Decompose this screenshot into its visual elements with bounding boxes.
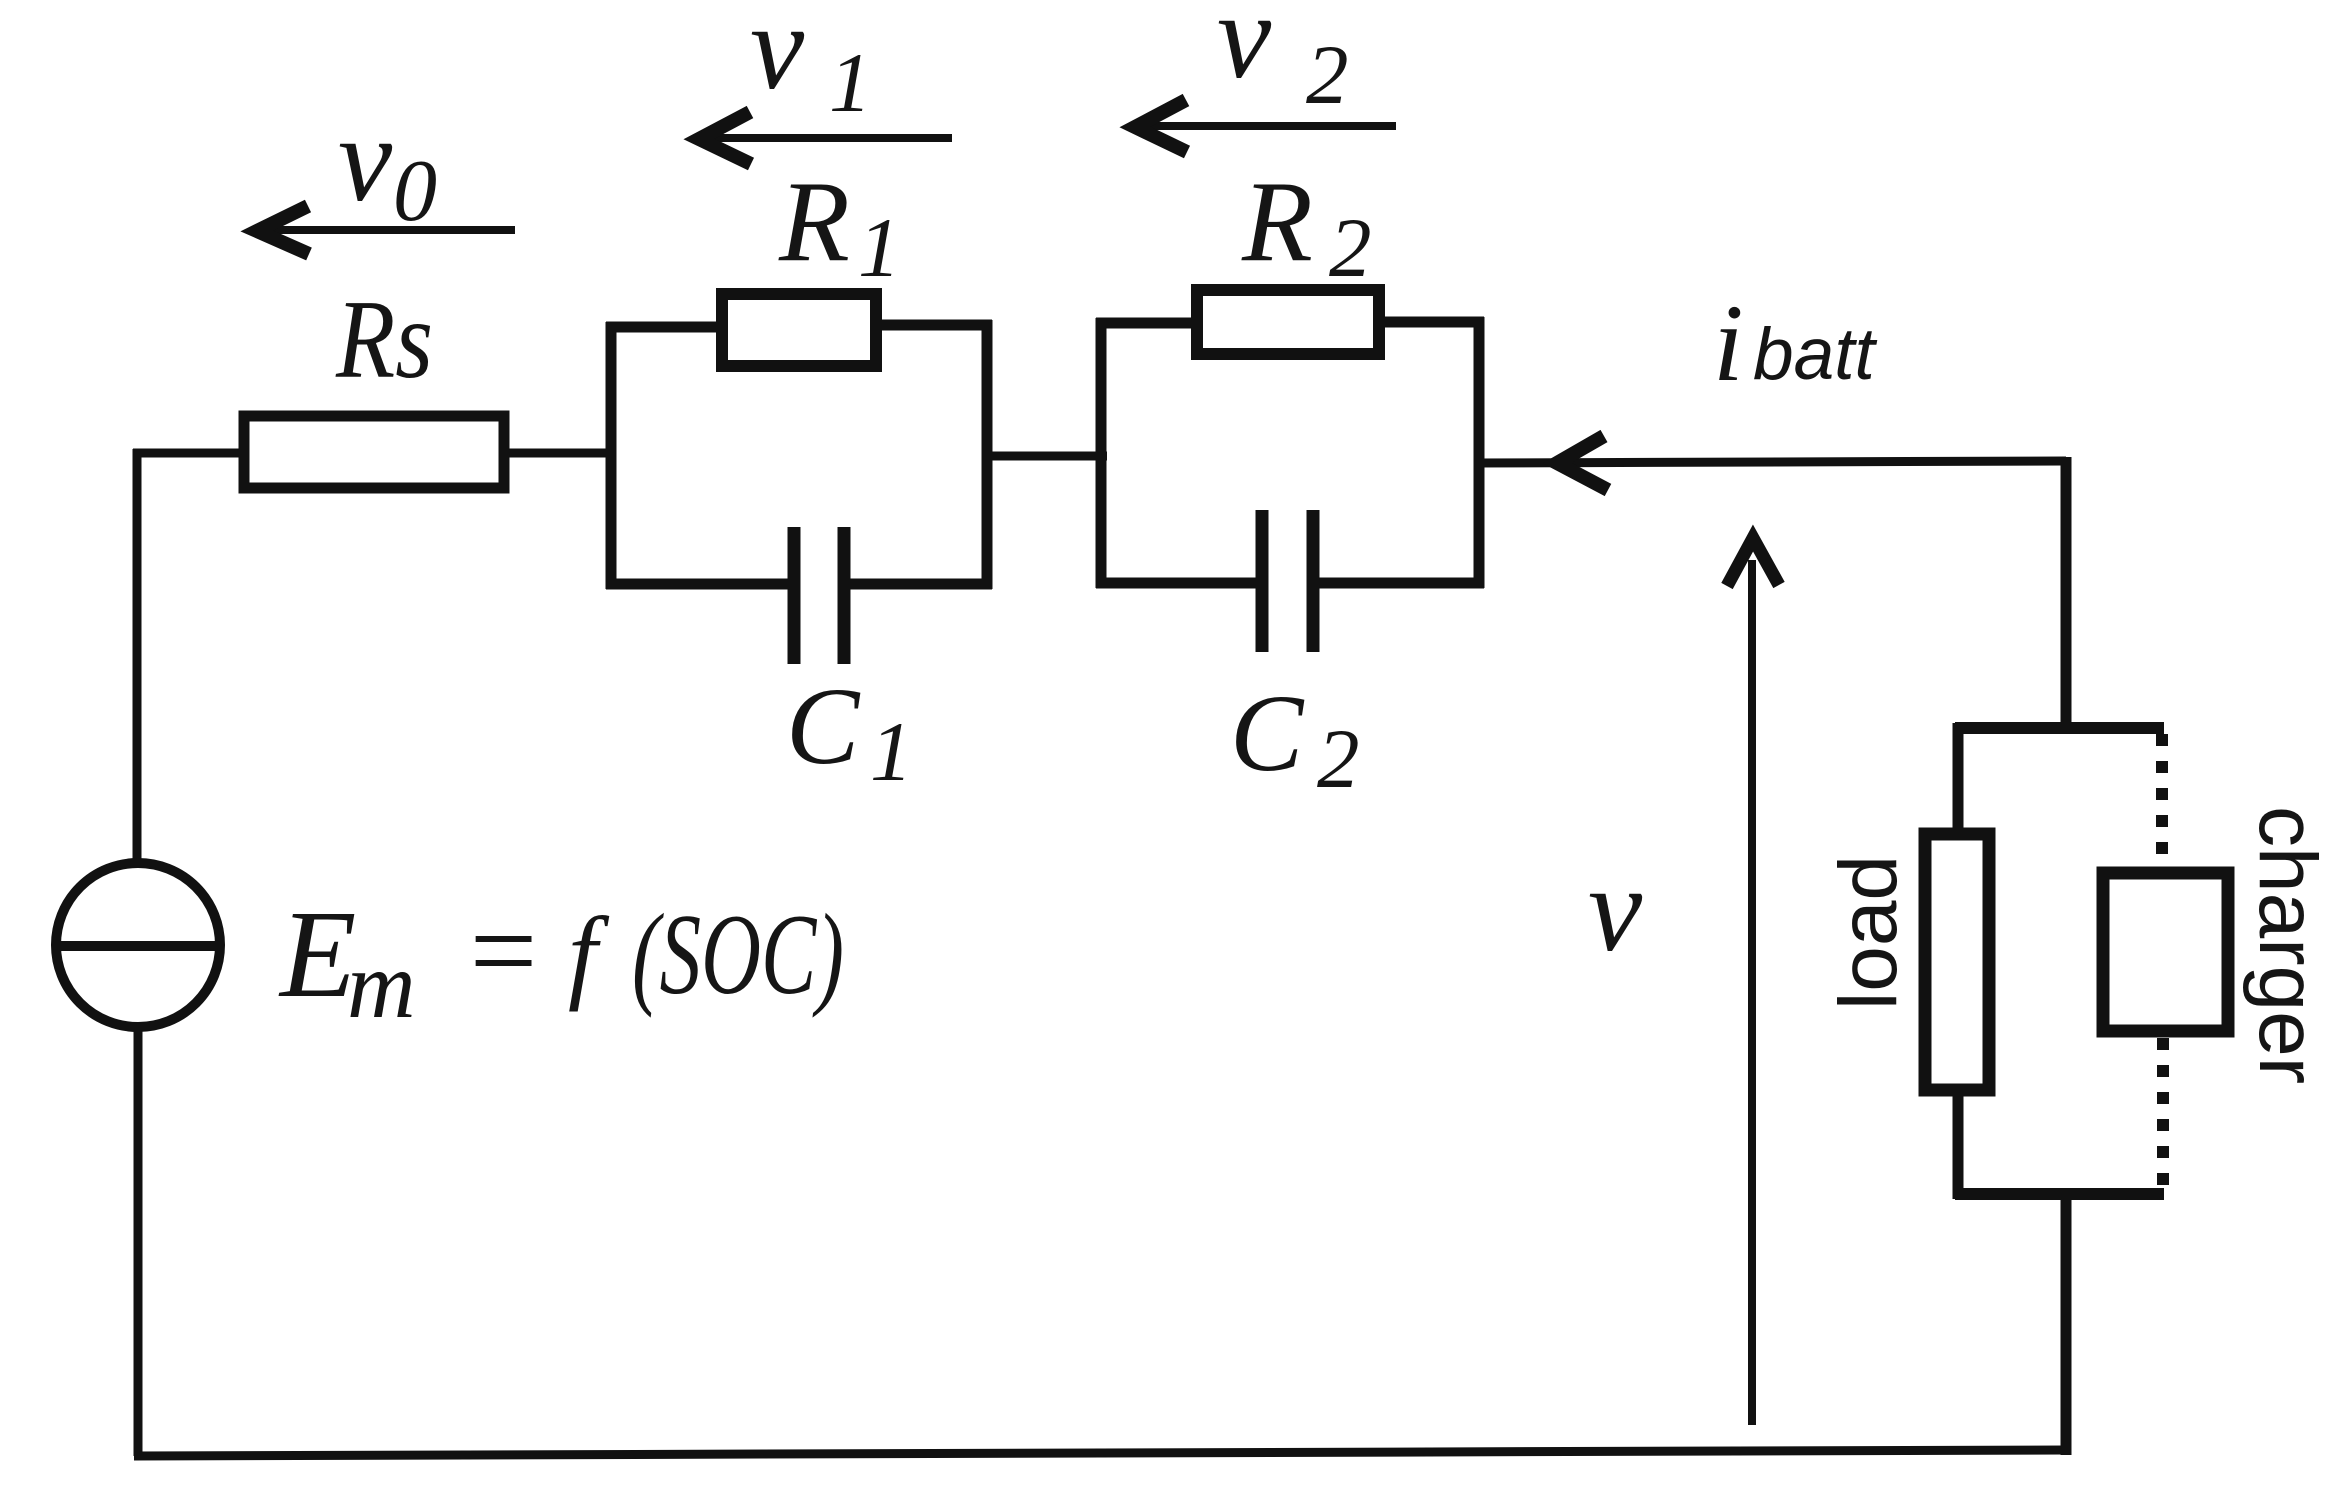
node: R2C2 block left vertical xyxy=(1096,318,1107,588)
wire: R2C2 bottom edge right xyxy=(1307,578,1484,589)
capacitor C2 xyxy=(1262,510,1313,652)
wire: main wire left segment xyxy=(133,449,242,458)
resistor R1 xyxy=(722,294,876,366)
arrow ibatt (pointing left on wire) xyxy=(1557,436,1608,490)
label Rs xyxy=(335,278,433,402)
label i batt xyxy=(1713,282,1877,404)
svg-text:R: R xyxy=(778,158,850,286)
label Em = f(SOC) xyxy=(278,884,844,1038)
node: R1C1 block left vertical xyxy=(606,322,617,589)
svg-text:=: = xyxy=(462,884,543,1017)
svg-text:i: i xyxy=(1713,282,1744,404)
svg-text:v: v xyxy=(338,92,393,227)
wire: R2C2 top edge right xyxy=(1373,317,1484,328)
svg-text:v: v xyxy=(1588,842,1643,977)
charger (box) xyxy=(2103,873,2228,1031)
wire: left vertical from source bottom to bottom wire xyxy=(134,1027,143,1456)
label C2 xyxy=(1230,672,1360,806)
label v1 xyxy=(750,0,872,130)
wire: R1C1 bottom edge right xyxy=(838,579,992,590)
svg-text:batt: batt xyxy=(1753,314,1877,395)
wire: right vertical upper xyxy=(2061,457,2072,733)
label R2 xyxy=(1241,158,1372,295)
label R1 xyxy=(778,158,901,295)
svg-text:2: 2 xyxy=(1306,28,1349,122)
svg-text:E: E xyxy=(278,886,356,1024)
wire: dotted charger branch upper xyxy=(2156,734,2168,868)
resistor Rs xyxy=(244,416,504,488)
svg-text:R: R xyxy=(1241,158,1313,286)
arrow v0 xyxy=(257,206,515,254)
svg-text:charger: charger xyxy=(2242,806,2333,1084)
svg-text:C: C xyxy=(786,665,861,787)
wire: Rs to R1C1 block xyxy=(504,449,616,458)
load (resistor box) xyxy=(1925,834,1989,1090)
svg-text:Rs: Rs xyxy=(335,278,433,402)
svg-text:1: 1 xyxy=(870,705,913,799)
svg-text:(SOC): (SOC) xyxy=(632,891,844,1018)
arrow v2 xyxy=(1135,100,1396,152)
svg-text:2: 2 xyxy=(1329,201,1372,295)
svg-text:load: load xyxy=(1823,855,1914,1010)
label C1 xyxy=(786,665,913,799)
wire: R1C1 right vertical xyxy=(982,320,993,589)
label v0 xyxy=(338,92,437,240)
wire: left vertical from main wire to source top xyxy=(133,449,142,864)
wire: load branch lower xyxy=(1953,1090,1964,1199)
wire: top right horizontal with ibatt xyxy=(1474,461,2066,463)
voltage source Em (circle with horizontal bar) xyxy=(52,863,224,1027)
label load (rotated) xyxy=(1823,855,1914,1010)
wire: R2C2 top edge left xyxy=(1096,318,1197,329)
wire: R1C1 bottom edge left xyxy=(606,579,800,590)
wire: right vertical lower xyxy=(2061,1189,2072,1455)
arrow v1 xyxy=(699,112,952,164)
wire: R2C2 right vertical xyxy=(1474,317,1485,588)
label charger (rotated) xyxy=(2242,806,2333,1084)
wire: R2C2 bottom edge left xyxy=(1096,578,1268,589)
arrow v (vertical, pointing up) xyxy=(1727,538,1779,1425)
wire: R1C1 top edge left xyxy=(606,322,722,333)
svg-text:m: m xyxy=(347,932,416,1038)
svg-text:v: v xyxy=(750,0,805,115)
resistor R2 xyxy=(1197,290,1379,354)
svg-text:2: 2 xyxy=(1317,712,1360,806)
capacitor C1 xyxy=(794,527,844,664)
svg-text:0: 0 xyxy=(393,143,437,240)
svg-text:C: C xyxy=(1230,672,1305,794)
wire: load/charger bottom bar xyxy=(1955,1188,2164,1200)
wire: R1C1 top edge right xyxy=(876,320,992,331)
label v2 xyxy=(1217,0,1349,122)
svg-text:1: 1 xyxy=(829,36,872,130)
svg-text:v: v xyxy=(1217,0,1272,104)
label v xyxy=(1588,842,1643,977)
wire: load/charger top bar xyxy=(1955,722,2164,734)
wire: dotted charger branch lower xyxy=(2157,1038,2169,1190)
wire: bottom horizontal xyxy=(134,1450,2066,1456)
wire: load branch upper xyxy=(1953,723,1964,836)
svg-text:1: 1 xyxy=(858,201,901,295)
wire: R1C1 to R2C2 block xyxy=(982,452,1107,461)
